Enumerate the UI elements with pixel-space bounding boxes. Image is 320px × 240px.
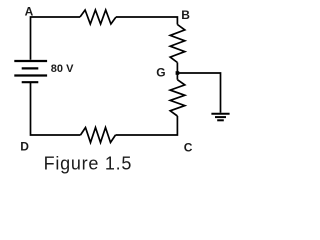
node A	[25, 5, 34, 19]
ground	[211, 114, 229, 121]
battery value label 80 V	[51, 63, 74, 75]
resistor (bottom, between D and C)	[81, 128, 116, 143]
svg-text:C: C	[184, 141, 193, 155]
wire upper resistor to node G junction	[176, 63, 178, 74]
node G junction dot	[176, 71, 180, 75]
wire node G to ground	[177, 73, 220, 113]
wire bottom resistor to corner D and up to battery-	[31, 83, 81, 135]
svg-text:B: B	[181, 8, 190, 22]
wire node G down to lower resistor	[176, 73, 178, 80]
node G label	[156, 66, 165, 80]
resistor (top, between A and B)	[80, 10, 116, 24]
svg-text:G: G	[156, 66, 165, 80]
battery 80 V	[14, 61, 47, 82]
resistor (right lower, between G and C)	[170, 80, 185, 116]
node C	[184, 141, 193, 155]
caption Figure 1.5	[44, 153, 133, 173]
wire battery+ up to corner A and right to top resistor	[31, 17, 81, 60]
node D	[20, 139, 29, 153]
svg-text:Figure 1.5: Figure 1.5	[44, 153, 133, 173]
node B	[181, 8, 190, 22]
svg-text:D: D	[20, 139, 29, 153]
resistor (right upper, between B and G)	[170, 25, 185, 63]
wire top resistor to corner B and down	[116, 17, 177, 25]
wire lower resistor to corner C and left to bottom resistor	[116, 116, 178, 135]
svg-text:80 V: 80 V	[51, 63, 74, 75]
